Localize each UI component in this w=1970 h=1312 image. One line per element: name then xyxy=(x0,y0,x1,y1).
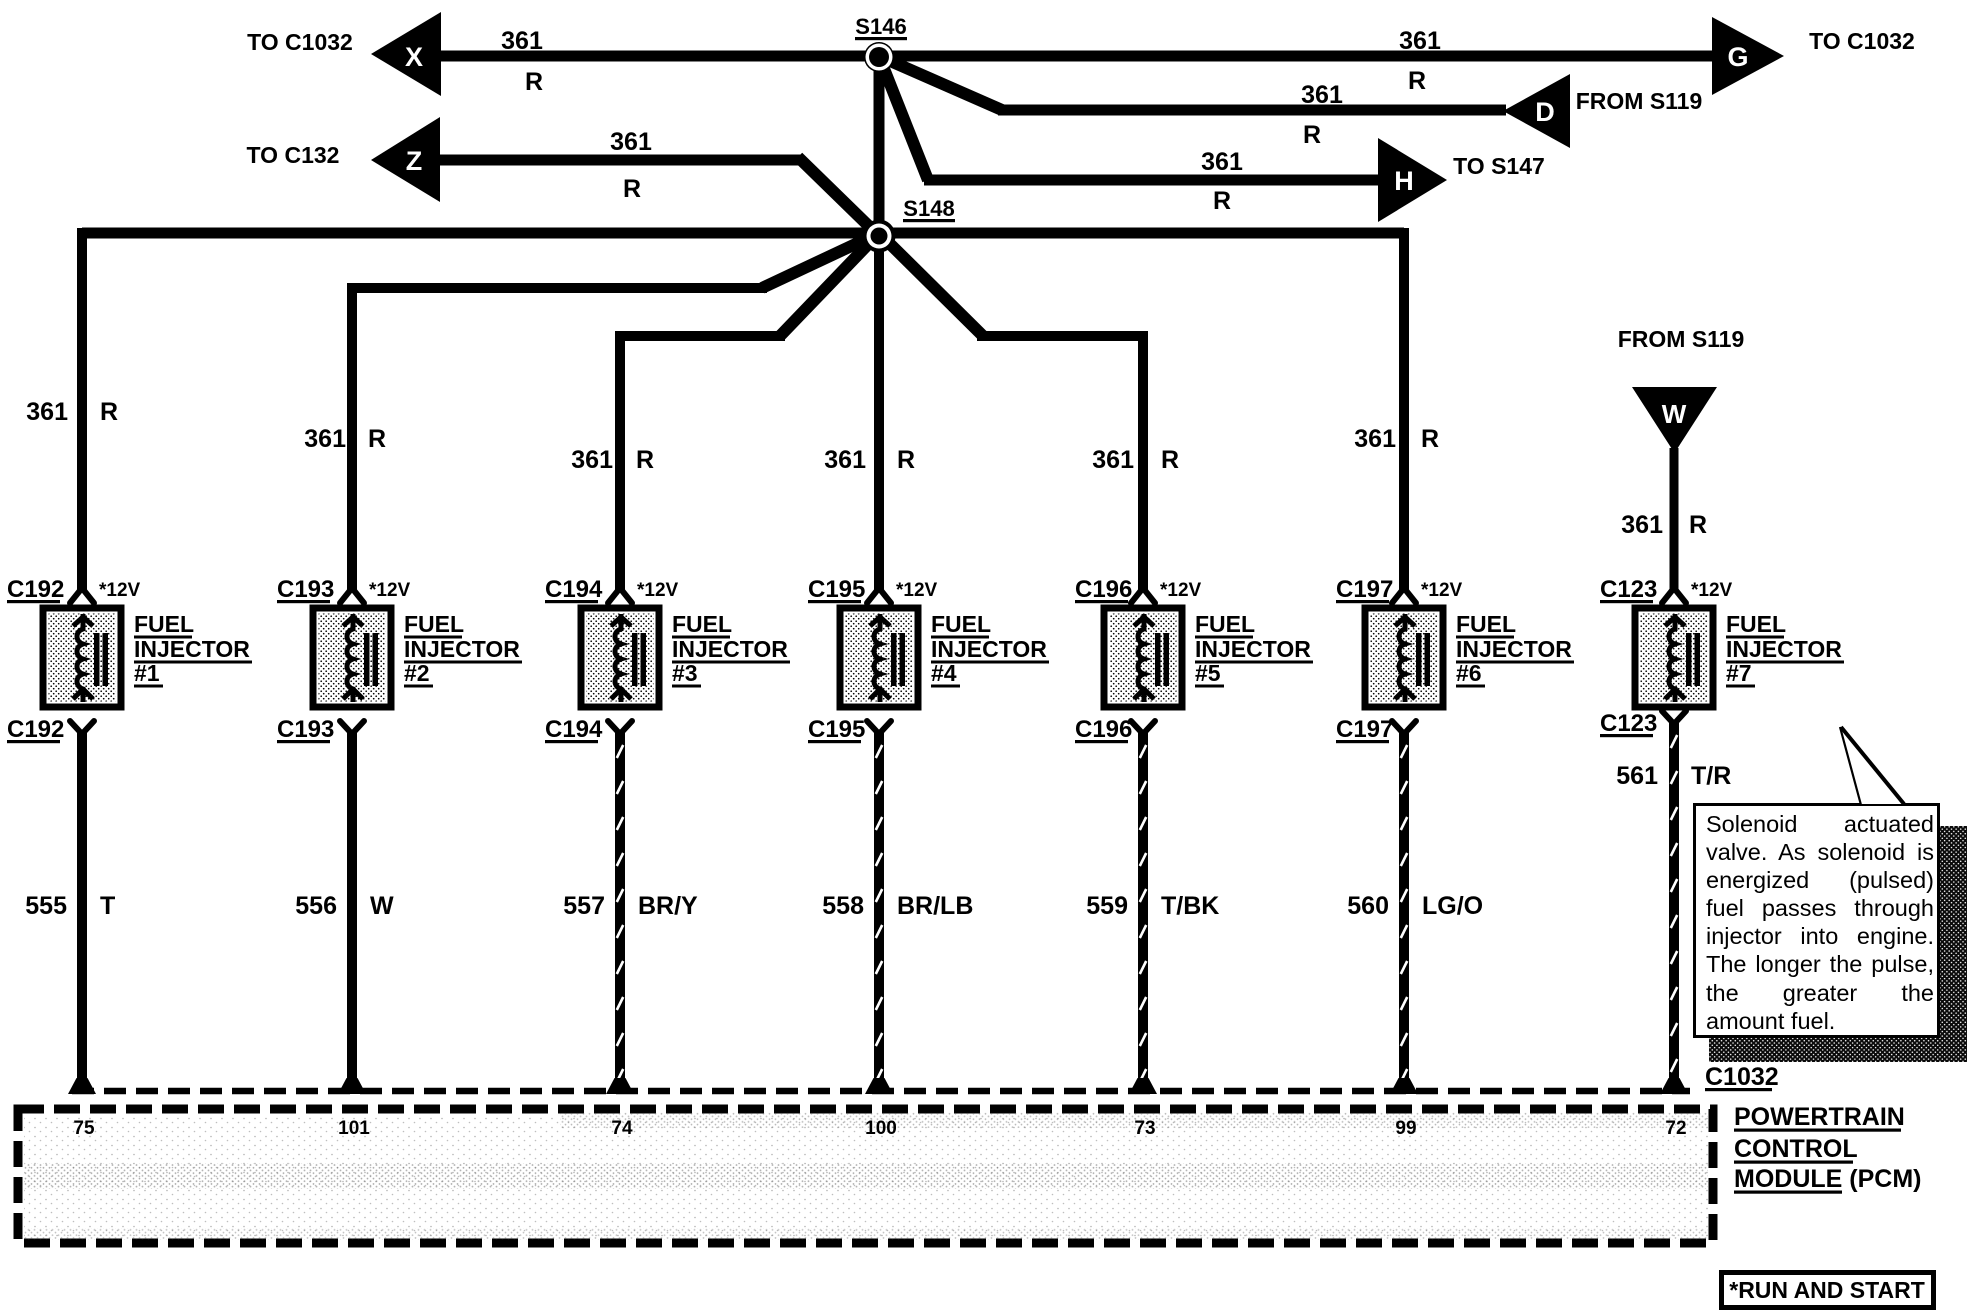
wire foot at PCM pin 74 xyxy=(606,1078,634,1094)
wire 561 T/R to PCM xyxy=(1669,722,1679,1081)
hatch marks on wire 560 xyxy=(1401,745,1407,1082)
wire branch to injector 1 (horizontal) xyxy=(82,228,879,239)
connector C192 (top, *12V side) label xyxy=(7,576,141,603)
svg-text:556: 556 xyxy=(295,892,337,920)
wire 361 R from X to splice S146 xyxy=(437,51,879,62)
connector C195 top fork xyxy=(867,588,891,603)
svg-text:R: R xyxy=(1303,121,1321,149)
wire branch to injector 2 (horizontal) xyxy=(352,283,767,293)
svg-text:INJECTOR: INJECTOR xyxy=(1726,636,1842,662)
svg-text:*12V: *12V xyxy=(1421,580,1463,601)
connector C196 top fork xyxy=(1131,588,1155,603)
svg-text:72: 72 xyxy=(1665,1118,1686,1139)
connector C192 bottom fork xyxy=(70,721,94,734)
svg-text:361: 361 xyxy=(1301,81,1343,109)
svg-text:S146: S146 xyxy=(855,14,906,39)
svg-text:R: R xyxy=(1161,446,1179,474)
svg-text:#4: #4 xyxy=(931,660,957,686)
svg-text:C194: C194 xyxy=(545,576,603,603)
connector C194 (bottom) label xyxy=(545,716,603,743)
fuel injector #6 box xyxy=(1365,608,1443,707)
connector C193 bottom fork xyxy=(340,721,364,734)
svg-text:361: 361 xyxy=(501,27,543,55)
wire branch to injector 6 (vertical 361 R) xyxy=(1399,228,1409,592)
svg-text:INJECTOR: INJECTOR xyxy=(672,636,788,662)
svg-text:FUEL: FUEL xyxy=(134,611,194,637)
svg-text:TO C1032: TO C1032 xyxy=(247,29,353,55)
fuel injector #2 box xyxy=(313,608,391,707)
connector C123 top fork xyxy=(1662,588,1686,603)
svg-text:CONTROL: CONTROL xyxy=(1734,1135,1858,1163)
wire from S146 down to S148 xyxy=(874,58,885,236)
hatch marks on wire 558 xyxy=(876,745,882,1082)
wire foot at PCM pin 99 xyxy=(1390,1078,1418,1094)
connector C194 (top, *12V side) label xyxy=(545,576,679,603)
wire branch to injector 6 (horizontal) xyxy=(879,228,1404,239)
splice S148 xyxy=(863,196,956,253)
svg-text:#1: #1 xyxy=(134,660,160,686)
fuel injector #7 box xyxy=(1635,608,1713,707)
connector arrow G xyxy=(1712,17,1784,95)
fuel injector #4 box xyxy=(840,608,918,707)
svg-text:TO S147: TO S147 xyxy=(1453,153,1545,179)
splice S146 xyxy=(855,14,907,72)
hatch marks on wire 557 xyxy=(617,745,623,1082)
svg-text:560: 560 xyxy=(1347,892,1389,920)
svg-text:C194: C194 xyxy=(545,716,603,743)
svg-text:*12V: *12V xyxy=(896,580,938,601)
wire branch to injector 2 (diagonal) xyxy=(762,233,879,288)
connector C193 top fork xyxy=(340,588,364,603)
svg-text:R: R xyxy=(1213,187,1231,215)
svg-text:Z: Z xyxy=(406,146,423,176)
svg-text:D: D xyxy=(1535,97,1555,127)
connector C192 top fork xyxy=(70,588,94,603)
connector arrow D (FROM S119) xyxy=(1503,74,1570,148)
wire 361 R from W to C123 xyxy=(1670,448,1679,592)
svg-text:BR/Y: BR/Y xyxy=(638,892,698,920)
note text: solenoid actuated valve explanation xyxy=(1706,810,1934,1035)
svg-text:INJECTOR: INJECTOR xyxy=(931,636,1047,662)
connector C194 top fork xyxy=(608,588,632,603)
svg-text:T/R: T/R xyxy=(1691,762,1731,790)
fuel injector #5 name label xyxy=(1195,611,1313,688)
connector C197 top fork xyxy=(1392,588,1416,603)
wire segment S146 diagonal to D line xyxy=(879,56,1002,110)
connector C196 (bottom) label xyxy=(1075,716,1132,743)
svg-text:C193: C193 xyxy=(277,716,334,743)
hatch marks on wire 559 xyxy=(1140,745,1146,1082)
connector arrow W (points down) xyxy=(1632,387,1717,453)
svg-text:INJECTOR: INJECTOR xyxy=(1195,636,1311,662)
svg-text:C192: C192 xyxy=(7,576,64,603)
svg-text:361: 361 xyxy=(1201,148,1243,176)
svg-text:#3: #3 xyxy=(672,660,698,686)
note box callout pointer xyxy=(1840,727,1904,805)
svg-text:73: 73 xyxy=(1134,1118,1155,1139)
connector C195 bottom fork xyxy=(867,721,891,734)
connector C123 bottom fork xyxy=(1662,711,1686,724)
svg-text:FUEL: FUEL xyxy=(1195,611,1255,637)
svg-text:S148: S148 xyxy=(903,196,954,221)
connector arrow Z xyxy=(371,117,440,202)
svg-text:558: 558 xyxy=(822,892,864,920)
svg-text:FUEL: FUEL xyxy=(931,611,991,637)
svg-text:559: 559 xyxy=(1086,892,1128,920)
svg-text:FROM S119: FROM S119 xyxy=(1576,88,1703,114)
fuel injector #2 coil symbol xyxy=(343,614,378,702)
wire 559 T/BK to PCM xyxy=(1138,732,1148,1081)
svg-text:74: 74 xyxy=(611,1118,633,1139)
svg-text:W: W xyxy=(1662,399,1687,429)
svg-text:C196: C196 xyxy=(1075,576,1132,603)
wire branch to injector 5 (diagonal) xyxy=(879,233,983,336)
fuel injector #5 box xyxy=(1104,608,1182,707)
svg-text:C196: C196 xyxy=(1075,716,1132,743)
svg-text:R: R xyxy=(1421,425,1439,453)
svg-text:361: 361 xyxy=(1092,446,1134,474)
svg-text:BR/LB: BR/LB xyxy=(897,892,973,920)
svg-text:R: R xyxy=(368,425,386,453)
wire foot at PCM pin 75 xyxy=(68,1078,96,1094)
fuel injector #6 name label xyxy=(1456,611,1574,688)
svg-text:555: 555 xyxy=(25,892,67,920)
connector C194 bottom fork xyxy=(608,721,632,734)
svg-text:361: 361 xyxy=(304,425,346,453)
svg-text:101: 101 xyxy=(338,1118,370,1139)
*RUN AND START legend box xyxy=(1722,1273,1934,1308)
connector C1032 dashed line xyxy=(72,1088,1690,1095)
svg-text:T: T xyxy=(100,892,115,920)
svg-text:*RUN AND START: *RUN AND START xyxy=(1729,1277,1925,1303)
wire 361 R from S146 to G xyxy=(879,51,1714,62)
connector C193 (bottom) label xyxy=(277,716,334,743)
svg-text:C1032: C1032 xyxy=(1705,1063,1779,1091)
svg-text:C123: C123 xyxy=(1600,710,1657,737)
svg-text:R: R xyxy=(623,175,641,203)
wire 558 BR/LB to PCM xyxy=(874,732,884,1081)
svg-text:FUEL: FUEL xyxy=(404,611,464,637)
svg-text:FUEL: FUEL xyxy=(672,611,732,637)
wire branch to injector 1 (vertical 361 R) xyxy=(77,228,87,592)
svg-text:#5: #5 xyxy=(1195,660,1221,686)
svg-text:361: 361 xyxy=(824,446,866,474)
wire 361 R to D xyxy=(998,105,1506,116)
connector C197 (bottom) label xyxy=(1336,716,1393,743)
svg-text:R: R xyxy=(525,68,543,96)
svg-text:MODULE (PCM): MODULE (PCM) xyxy=(1734,1165,1921,1193)
svg-text:LG/O: LG/O xyxy=(1422,892,1483,920)
wire 361 R from Z toward S148 xyxy=(436,155,803,166)
svg-text:100: 100 xyxy=(865,1118,897,1139)
fuel injector #1 box xyxy=(43,608,121,707)
svg-text:G: G xyxy=(1727,42,1748,72)
wire branch to injector 5 (horizontal) xyxy=(977,331,1143,341)
connector C193 (top, *12V side) label xyxy=(277,576,411,603)
fuel injector #1 coil symbol xyxy=(73,614,108,702)
wire branch to injector 3 (horizontal) xyxy=(620,331,785,341)
wire 560 LG/O to PCM xyxy=(1399,732,1409,1081)
fuel injector #7 name label xyxy=(1726,611,1844,688)
connector C197 bottom fork xyxy=(1392,721,1416,734)
connector arrow X xyxy=(371,12,441,96)
connector C192 (bottom) label xyxy=(7,716,64,743)
svg-text:C197: C197 xyxy=(1336,716,1393,743)
wire branch to injector 4 (vertical 361 R) xyxy=(874,236,884,592)
svg-text:R: R xyxy=(636,446,654,474)
wire branch to injector 3 (vertical 361 R) xyxy=(615,331,625,592)
wire 557 BR/Y to PCM xyxy=(615,732,625,1081)
fuel injector #4 coil symbol xyxy=(870,614,905,702)
connector C123 (bottom) label xyxy=(1600,710,1657,737)
svg-text:H: H xyxy=(1394,166,1414,196)
wire branch to injector 3 (diagonal) xyxy=(780,233,879,336)
svg-text:361: 361 xyxy=(1354,425,1396,453)
svg-text:C123: C123 xyxy=(1600,576,1657,603)
svg-text:R: R xyxy=(1408,67,1426,95)
svg-text:361: 361 xyxy=(1621,511,1663,539)
svg-text:*12V: *12V xyxy=(369,580,411,601)
svg-text:C193: C193 xyxy=(277,576,334,603)
connector C196 bottom fork xyxy=(1131,721,1155,734)
svg-text:561: 561 xyxy=(1616,762,1658,790)
connector C196 (top, *12V side) label xyxy=(1075,576,1202,603)
connector arrow H xyxy=(1378,138,1447,222)
svg-text:*12V: *12V xyxy=(637,580,679,601)
svg-text:TO C1032: TO C1032 xyxy=(1809,28,1915,54)
svg-text:X: X xyxy=(405,42,423,72)
svg-text:557: 557 xyxy=(563,892,605,920)
wire 555 T to PCM xyxy=(77,732,87,1081)
label C1032 xyxy=(1705,1063,1779,1091)
hatch marks on wire 561 xyxy=(1671,735,1677,1072)
wire foot at PCM pin 73 xyxy=(1129,1078,1157,1094)
svg-text:361: 361 xyxy=(610,128,652,156)
svg-text:361: 361 xyxy=(26,398,68,426)
fuel injector #6 coil symbol xyxy=(1395,614,1430,702)
svg-text:#2: #2 xyxy=(404,660,430,686)
svg-text:*12V: *12V xyxy=(1691,580,1733,601)
connector C123 (top, *12V side) label xyxy=(1600,576,1733,603)
svg-text:#6: #6 xyxy=(1456,660,1482,686)
note box xyxy=(1695,805,1939,1037)
connector C195 (top, *12V side) label xyxy=(808,576,938,603)
svg-text:FROM S119: FROM S119 xyxy=(1618,326,1745,352)
svg-text:361: 361 xyxy=(1399,27,1441,55)
svg-text:R: R xyxy=(1689,511,1707,539)
wire branch to injector 2 (vertical 361 R) xyxy=(347,283,357,592)
fuel injector #1 name label xyxy=(134,611,252,688)
fuel injector #2 name label xyxy=(404,611,522,688)
svg-text:R: R xyxy=(897,446,915,474)
svg-text:POWERTRAIN: POWERTRAIN xyxy=(1734,1103,1905,1131)
svg-text:FUEL: FUEL xyxy=(1456,611,1516,637)
svg-text:T/BK: T/BK xyxy=(1161,892,1219,920)
note box shadow xyxy=(1709,826,1967,1062)
wire foot at PCM pin 72 xyxy=(1660,1078,1688,1094)
wire branch to injector 5 (vertical 361 R) xyxy=(1138,331,1148,592)
fuel injector #3 box xyxy=(581,608,659,707)
fuel injector #7 coil symbol xyxy=(1665,614,1700,702)
PCM dashed box xyxy=(18,1109,1713,1243)
wire foot at PCM pin 101 xyxy=(338,1078,366,1094)
svg-text:INJECTOR: INJECTOR xyxy=(404,636,520,662)
svg-text:*12V: *12V xyxy=(99,580,141,601)
svg-text:*12V: *12V xyxy=(1160,580,1202,601)
svg-text:INJECTOR: INJECTOR xyxy=(1456,636,1572,662)
fuel injector #4 name label xyxy=(931,611,1049,688)
wire 556 W to PCM xyxy=(347,732,357,1081)
svg-text:99: 99 xyxy=(1395,1118,1416,1139)
svg-text:361: 361 xyxy=(571,446,613,474)
connector C195 (bottom) label xyxy=(808,716,865,743)
fuel injector #5 coil symbol xyxy=(1134,614,1169,702)
svg-text:C197: C197 xyxy=(1336,576,1393,603)
svg-text:FUEL: FUEL xyxy=(1726,611,1786,637)
svg-text:C195: C195 xyxy=(808,576,865,603)
fuel injector #3 coil symbol xyxy=(611,614,646,702)
wire foot at PCM pin 100 xyxy=(865,1078,893,1094)
svg-text:#7: #7 xyxy=(1726,660,1752,686)
connector C197 (top, *12V side) label xyxy=(1336,576,1463,603)
svg-text:R: R xyxy=(100,398,118,426)
svg-text:INJECTOR: INJECTOR xyxy=(134,636,250,662)
wire segment S146 diagonal to H line xyxy=(879,56,928,180)
wire 361 R to H xyxy=(924,175,1382,186)
svg-text:W: W xyxy=(370,892,394,920)
label POWERTRAIN CONTROL MODULE (PCM) xyxy=(1734,1103,1921,1194)
wire diagonal Z line to splice S148 xyxy=(798,157,879,236)
svg-text:C195: C195 xyxy=(808,716,865,743)
svg-text:TO C132: TO C132 xyxy=(247,142,340,168)
svg-text:75: 75 xyxy=(73,1118,95,1139)
svg-text:C192: C192 xyxy=(7,716,64,743)
fuel injector #3 name label xyxy=(672,611,790,688)
